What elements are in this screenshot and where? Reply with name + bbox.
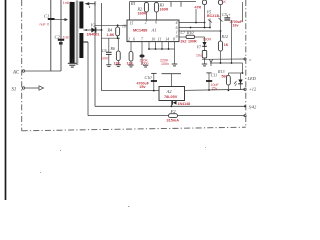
IC A1 xyxy=(122,20,179,42)
ground (transformer) xyxy=(68,59,77,68)
svg-text:R10: R10 xyxy=(186,30,193,35)
wire divider (y38.2) xyxy=(102,37,121,39)
resistor R2 xyxy=(137,2,149,20)
wire 47R feed xyxy=(195,9,197,23)
capacitor C8 xyxy=(139,42,148,66)
wire IC right pin b (y27.5) xyxy=(179,27,210,29)
transformer T1 secondary winding upper xyxy=(79,2,83,29)
wire unregulated vertical (x88) xyxy=(87,42,89,116)
wire mains line 2 xyxy=(60,0,62,71)
wire R8 down xyxy=(220,5,222,41)
node xyxy=(242,72,244,74)
svg-text:C10: C10 xyxy=(145,75,153,80)
svg-text:A2: A2 xyxy=(166,89,173,94)
svg-text:160R: 160R xyxy=(138,12,147,16)
svg-text:25v: 25v xyxy=(212,86,218,90)
diode V7 xyxy=(197,37,207,51)
resistor R6 xyxy=(110,38,121,65)
svg-text:1K: 1K xyxy=(222,0,227,4)
svg-text:BC213L: BC213L xyxy=(207,14,221,18)
terminal S bus xyxy=(244,105,246,107)
svg-text:180R: 180R xyxy=(203,37,212,41)
terminal +12 xyxy=(244,88,246,90)
svg-text:315mA: 315mA xyxy=(167,119,180,123)
wire down to raw rail xyxy=(242,63,244,73)
value label 220K 100n xyxy=(160,59,169,66)
fuse F2 xyxy=(167,109,180,122)
ground (C6) xyxy=(106,65,111,67)
svg-text:C1: C1 xyxy=(44,14,49,19)
resistor R4 xyxy=(107,25,120,38)
node xyxy=(220,62,222,64)
zener V8 xyxy=(209,59,212,66)
chassis edge line xyxy=(5,0,7,200)
ground (pin bus) xyxy=(172,64,178,66)
node C11 xyxy=(208,89,210,91)
svg-text:100n: 100n xyxy=(101,57,109,61)
capacitor C1 xyxy=(40,14,55,27)
paper speckles xyxy=(40,147,206,207)
svg-text:MC1489: MC1489 xyxy=(133,28,148,33)
wire IC right pin c (y31) xyxy=(179,30,221,32)
svg-text:16v: 16v xyxy=(233,24,239,28)
switch S1 xyxy=(12,86,44,93)
wire raw AC vertical (x95) xyxy=(94,4,96,107)
node xyxy=(190,27,192,29)
resistor R13 xyxy=(217,69,230,90)
wire IC right pin a (y22.5) xyxy=(179,22,205,24)
wire to c terminal (y59) xyxy=(202,58,245,60)
wire rail to A2 xyxy=(102,90,160,92)
svg-text:4: 4 xyxy=(176,21,178,25)
svg-text:15: 15 xyxy=(130,22,134,26)
enclosure border left (dash-dot) xyxy=(21,0,23,131)
svg-text:C2: C2 xyxy=(55,35,61,40)
svg-text:R13: R13 xyxy=(217,69,224,74)
terminal c xyxy=(244,58,246,60)
resistor R8 xyxy=(218,0,222,5)
wire A2 out xyxy=(185,89,246,90)
wire y63 xyxy=(210,62,243,64)
svg-text:R6: R6 xyxy=(110,46,115,51)
svg-text:c: c xyxy=(250,57,252,62)
transistor V5 xyxy=(207,9,222,27)
enclosure border right (dash-dot) xyxy=(245,0,247,127)
svg-text:2: 2 xyxy=(128,37,130,41)
wire x242 top xyxy=(242,2,244,22)
node C10 xyxy=(153,90,155,92)
wire corner to bus 115 xyxy=(88,115,245,117)
node V9 xyxy=(171,105,173,107)
svg-text:2k2: 2k2 xyxy=(181,39,187,43)
ground (C8) xyxy=(143,65,148,67)
node xyxy=(195,22,197,24)
svg-text:47R: 47R xyxy=(195,5,202,9)
resistor R3 xyxy=(154,2,168,20)
svg-text:100R: 100R xyxy=(188,39,197,43)
svg-text:A1: A1 xyxy=(151,28,157,33)
label V1 tick xyxy=(88,6,91,8)
node xyxy=(220,30,222,32)
svg-text:C5 +: C5 + xyxy=(222,12,231,17)
capacitor C2 xyxy=(55,35,73,45)
wire rectified vertical (x101.5) xyxy=(101,3,103,91)
wire R1 feed xyxy=(129,2,131,20)
svg-text:LED: LED xyxy=(247,76,257,81)
transformer T1 primary winding xyxy=(70,2,75,64)
svg-text:S1: S1 xyxy=(12,87,17,92)
node divider xyxy=(117,37,119,39)
ground (C12) xyxy=(202,64,207,66)
svg-text:nuF X: nuF X xyxy=(40,23,50,27)
wire secondary bottom tap xyxy=(83,41,88,43)
svg-text:25v: 25v xyxy=(140,85,146,89)
terminal AC xyxy=(12,70,25,76)
capacitor C11 xyxy=(206,73,219,91)
capacitor C6 xyxy=(101,38,112,64)
svg-text:1N4001: 1N4001 xyxy=(87,32,100,36)
svg-text:1K: 1K xyxy=(224,43,229,47)
node xyxy=(204,27,206,29)
svg-text:C6: C6 xyxy=(102,48,107,53)
node pin bus xyxy=(148,48,150,50)
wire IC right pin d (y37) xyxy=(179,36,186,38)
svg-text:R12: R12 xyxy=(221,34,228,39)
node R4 top xyxy=(117,24,119,26)
svg-text:9: 9 xyxy=(176,35,178,39)
wire rail stub b xyxy=(180,2,182,7)
wire raw rail y73 xyxy=(228,72,242,74)
svg-text:10u: 10u xyxy=(196,53,202,57)
svg-text:V7: V7 xyxy=(197,45,202,50)
enclosure border bottom (dash-dot) xyxy=(22,127,246,131)
wire corner to bus 106 xyxy=(95,105,245,107)
svg-text:1N4148: 1N4148 xyxy=(178,102,191,106)
svg-text:6: 6 xyxy=(176,26,178,30)
wire top rail xyxy=(130,1,197,3)
node R13 bottom xyxy=(228,89,230,91)
transformer core xyxy=(75,1,77,66)
transformer T1 secondary winding lower xyxy=(79,33,83,58)
svg-text:10: 10 xyxy=(151,37,155,41)
wire mains line 1 xyxy=(50,0,52,71)
svg-text:160R: 160R xyxy=(160,8,169,12)
resistor R5 xyxy=(127,42,134,66)
wire R7 down xyxy=(204,5,206,28)
svg-text:6: 6 xyxy=(155,20,157,24)
svg-text:S/42: S/42 xyxy=(249,104,256,109)
wire rail stub a xyxy=(170,2,172,7)
svg-text:C11: C11 xyxy=(211,73,217,78)
svg-text:1.8K: 1.8K xyxy=(107,33,115,37)
resistor R12 xyxy=(219,31,229,63)
svg-text:100n: 100n xyxy=(161,62,169,66)
capacitor C12 (10u) xyxy=(196,51,207,64)
wire AC line xyxy=(25,70,61,72)
wire secondary top tap xyxy=(85,1,95,6)
LED V10 xyxy=(234,73,243,90)
capacitor C5 xyxy=(222,12,243,63)
regulator A2 xyxy=(159,74,185,101)
svg-text:1: 1 xyxy=(176,31,178,35)
terminal bus 115 xyxy=(244,115,246,117)
resistor R10 xyxy=(181,30,212,43)
svg-text:2: 2 xyxy=(145,20,147,24)
svg-text:78L05V: 78L05V xyxy=(164,95,178,99)
svg-text:14: 14 xyxy=(165,37,169,41)
ground (R6) xyxy=(116,65,121,67)
diode V9 xyxy=(172,101,191,107)
arrow link xyxy=(54,18,69,21)
capacitor C10 xyxy=(137,73,158,90)
svg-text:6: 6 xyxy=(133,37,135,41)
svg-text:AC: AC xyxy=(12,70,20,75)
transistor V6 xyxy=(219,18,223,22)
wire IC input (y25.3) xyxy=(95,24,127,26)
diode V2 xyxy=(83,23,102,37)
ground (R5) xyxy=(128,65,133,67)
svg-text:R4: R4 xyxy=(107,28,113,33)
svg-text:16: 16 xyxy=(122,25,126,29)
svg-text:+12: +12 xyxy=(249,87,257,92)
wire pin bus below IC xyxy=(149,42,175,64)
resistor R7 xyxy=(202,0,206,5)
svg-text:11: 11 xyxy=(158,37,162,41)
